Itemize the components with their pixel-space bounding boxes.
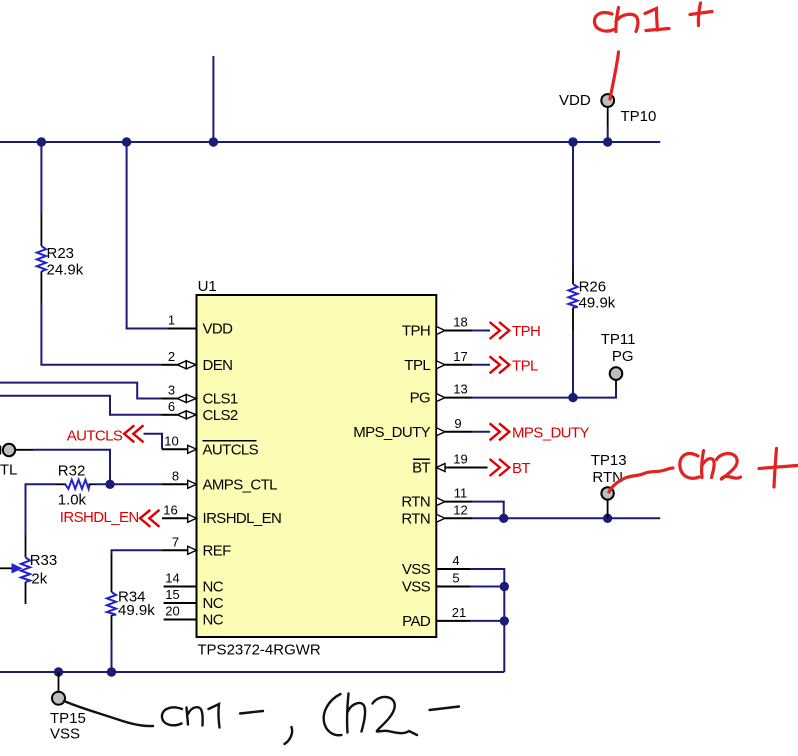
svg-text:TPL: TPL xyxy=(404,357,430,374)
wire rail to pin1 VDD xyxy=(127,142,168,329)
node junction at 127,142 xyxy=(122,137,131,146)
testpoint TP13 xyxy=(591,452,627,518)
off-page connector MPS_DUTY xyxy=(490,423,590,441)
wire top VDD rail xyxy=(0,141,660,143)
testpoint TP11 xyxy=(601,331,636,390)
node junction at 213,142 xyxy=(209,137,218,146)
svg-text:NC: NC xyxy=(203,579,224,596)
pin names right column xyxy=(353,323,431,630)
svg-text:PAD: PAD xyxy=(402,613,431,630)
wire AUTCLS tail to pin10 xyxy=(144,434,163,450)
svg-text:PG: PG xyxy=(612,348,634,365)
svg-text:16: 16 xyxy=(163,502,177,517)
svg-text:AMPS_CTL: AMPS_CTL xyxy=(203,476,278,493)
wire pin17 to TPL connector xyxy=(472,364,490,366)
svg-text:TPH: TPH xyxy=(402,323,430,340)
pin 14 NC stub xyxy=(164,571,197,587)
svg-text:MPS_DUTY: MPS_DUTY xyxy=(512,424,589,441)
pin 19 BT stub xyxy=(436,452,487,472)
off-page connector TPH xyxy=(490,322,541,340)
svg-text:VSS: VSS xyxy=(402,561,431,578)
node junction at 573,398 xyxy=(568,393,577,402)
annotation red ch1+ handwriting xyxy=(594,3,712,32)
resistor R32 1.0k xyxy=(56,463,96,509)
svg-text:19: 19 xyxy=(453,452,467,467)
node junction at 504,586 xyxy=(500,582,509,591)
svg-text:TP15: TP15 xyxy=(50,710,86,727)
svg-text:PG: PG xyxy=(410,390,430,407)
svg-text:24.9k: 24.9k xyxy=(47,262,84,279)
svg-text:TP11: TP11 xyxy=(601,331,636,348)
svg-text:REF: REF xyxy=(203,542,232,559)
svg-text:R32: R32 xyxy=(58,463,86,480)
annotation red ch2+ handwriting with leader to TP13 xyxy=(609,449,797,493)
node junction at 111,672 xyxy=(107,667,116,676)
annotation black cn1-,ch2- handwriting with leader from TP15 xyxy=(64,694,459,745)
annotation red probe stroke to TP10 xyxy=(610,52,619,99)
svg-text:CLS2: CLS2 xyxy=(203,407,238,424)
pin 9 MPS_DUTY stub xyxy=(436,416,472,436)
pin names left column xyxy=(203,321,282,629)
resistor R23 24.9k xyxy=(37,214,84,303)
svg-text:NC: NC xyxy=(203,595,224,612)
wire pin18 to TPH connector xyxy=(472,330,490,332)
svg-text:9: 9 xyxy=(454,416,461,431)
svg-text:TPL: TPL xyxy=(512,357,538,374)
label TP10 xyxy=(621,108,657,125)
svg-text:U1: U1 xyxy=(198,278,217,295)
wire pin9 to MPS_DUTY connector xyxy=(472,431,490,433)
node junction at 504,518 xyxy=(499,514,508,523)
svg-text:18: 18 xyxy=(453,315,467,330)
svg-text:21: 21 xyxy=(452,605,466,620)
svg-text:CLS1: CLS1 xyxy=(203,391,238,408)
node junction at 608,518 xyxy=(603,514,612,523)
node junction at 573,142 xyxy=(568,137,577,146)
svg-text:AUTCLS: AUTCLS xyxy=(67,427,123,444)
wire RTN net to right xyxy=(472,517,660,519)
svg-text:VSS: VSS xyxy=(50,726,80,743)
svg-text:1.0k: 1.0k xyxy=(58,491,87,508)
wire CTL to pin8 node xyxy=(33,450,110,485)
svg-text:IRSHDL_EN: IRSHDL_EN xyxy=(60,509,139,526)
svg-text:7: 7 xyxy=(172,534,179,549)
resistor R33 2k potentiometer xyxy=(0,535,57,604)
pin 11 RTN stub xyxy=(436,486,472,506)
pin 2 DEN stub xyxy=(162,349,197,369)
svg-text:49.9k: 49.9k xyxy=(579,295,616,312)
pin 20 NC stub xyxy=(164,604,197,620)
wire pin4 down to VSS net xyxy=(470,569,504,587)
off-page connector TPL xyxy=(490,356,538,374)
node junction at 58,672 xyxy=(54,667,63,676)
svg-text:5: 5 xyxy=(452,571,459,586)
svg-text:NC: NC xyxy=(203,612,224,629)
testpoint CTL at left edge xyxy=(0,444,33,479)
svg-text:BT: BT xyxy=(512,460,530,477)
svg-text:AUTCLS: AUTCLS xyxy=(203,441,259,458)
pin 16 IRSHDL_EN stub xyxy=(162,502,197,522)
svg-text:4: 4 xyxy=(452,553,459,568)
pin name BT overline xyxy=(413,458,430,460)
wire rail to R26 xyxy=(572,142,574,267)
svg-text:CTL: CTL xyxy=(0,462,17,479)
pin 21 PAD stub xyxy=(436,605,470,621)
node junction at 608,142 xyxy=(603,137,612,146)
svg-text:2: 2 xyxy=(168,349,175,364)
svg-text:TP13: TP13 xyxy=(591,452,627,469)
svg-text:IRSHDL_EN: IRSHDL_EN xyxy=(203,510,282,527)
wire pin13 PG net to TP11 xyxy=(472,390,616,398)
off-page connector BT xyxy=(490,459,531,477)
wire top stub xyxy=(212,56,214,142)
pin 8 AMPS_CTL stub xyxy=(162,468,197,488)
svg-text:10: 10 xyxy=(164,433,178,448)
node junction at 41,142 xyxy=(37,137,46,146)
svg-text:6: 6 xyxy=(168,399,175,414)
wire pin5 to VSS node xyxy=(470,586,504,588)
svg-text:17: 17 xyxy=(453,349,467,364)
wire VSS net vertical xyxy=(503,587,505,673)
svg-text:VDD: VDD xyxy=(203,321,234,338)
svg-text:2k: 2k xyxy=(31,571,47,588)
svg-text:14: 14 xyxy=(165,571,179,586)
net label VDD xyxy=(559,92,591,109)
pin 18 TPH stub xyxy=(436,315,472,335)
svg-text:11: 11 xyxy=(454,486,468,501)
svg-text:R23: R23 xyxy=(47,245,75,262)
testpoint TP15 xyxy=(50,672,86,743)
svg-text:13: 13 xyxy=(453,382,467,397)
svg-text:MPS_DUTY: MPS_DUTY xyxy=(353,424,430,441)
pin 15 NC stub xyxy=(164,587,197,603)
pin 6 CLS2 stub xyxy=(162,399,197,419)
pin 4 VSS stub xyxy=(436,553,470,569)
resistor R34 49.9k xyxy=(107,554,155,640)
svg-text:1: 1 xyxy=(168,313,175,328)
wire rail to R23 xyxy=(40,142,42,214)
testpoint TP10 xyxy=(601,94,614,142)
pin name AUTCLS overline xyxy=(203,440,257,442)
off-page connector AUTCLS xyxy=(67,425,144,444)
wire R32 left to R33 xyxy=(26,484,57,535)
node junction at 504,621 xyxy=(500,616,509,625)
wire R32 right to pin8 xyxy=(96,483,162,485)
svg-text:BT: BT xyxy=(412,460,430,477)
svg-text:15: 15 xyxy=(165,587,179,602)
pin 12 RTN stub xyxy=(436,502,472,522)
off-page connector IRSHDL_EN xyxy=(60,509,160,527)
wire CLS1 from left edge xyxy=(0,383,162,399)
wire pin21 to VSS net xyxy=(470,620,504,622)
svg-text:TPH: TPH xyxy=(512,323,540,340)
pin 1 VDD stub xyxy=(168,313,197,329)
pin 17 TPL stub xyxy=(436,349,472,369)
resistor R26 49.9k xyxy=(568,267,615,333)
svg-text:VSS: VSS xyxy=(402,579,431,596)
svg-text:R26: R26 xyxy=(579,279,607,296)
pin 13 PG stub xyxy=(436,382,472,402)
svg-text:RTN: RTN xyxy=(401,510,430,527)
pin 3 CLS1 stub xyxy=(162,383,197,403)
svg-text:TPS2372-4RGWR: TPS2372-4RGWR xyxy=(197,642,321,659)
wire bottom VSS rail xyxy=(0,671,504,673)
svg-text:3: 3 xyxy=(168,383,175,398)
pin 5 VSS stub xyxy=(436,571,470,587)
svg-text:TP10: TP10 xyxy=(621,108,657,125)
node junction at 110,484 xyxy=(105,480,114,489)
svg-text:49.9k: 49.9k xyxy=(118,602,155,619)
wire pin11 down to RTN net xyxy=(472,502,504,519)
op-amp U1 body TPS2372-4RGWR xyxy=(197,278,437,659)
wire CLS2 from left edge xyxy=(0,396,162,415)
pin 10 AUTCLS stub xyxy=(162,433,197,453)
wire R26 to PG node xyxy=(572,333,574,398)
svg-text:VDD: VDD xyxy=(559,92,591,109)
wire pin7 REF to R34 xyxy=(112,550,163,554)
pin 7 REF stub xyxy=(162,534,197,554)
svg-text:RTN: RTN xyxy=(401,494,430,511)
wire R23 to pin2 DEN xyxy=(41,303,161,365)
svg-text:DEN: DEN xyxy=(203,357,233,374)
svg-text:20: 20 xyxy=(165,604,179,619)
wire R34 to bottom rail xyxy=(111,640,113,673)
svg-text:8: 8 xyxy=(172,468,179,483)
svg-text:R33: R33 xyxy=(30,552,58,569)
svg-text:12: 12 xyxy=(453,502,467,517)
